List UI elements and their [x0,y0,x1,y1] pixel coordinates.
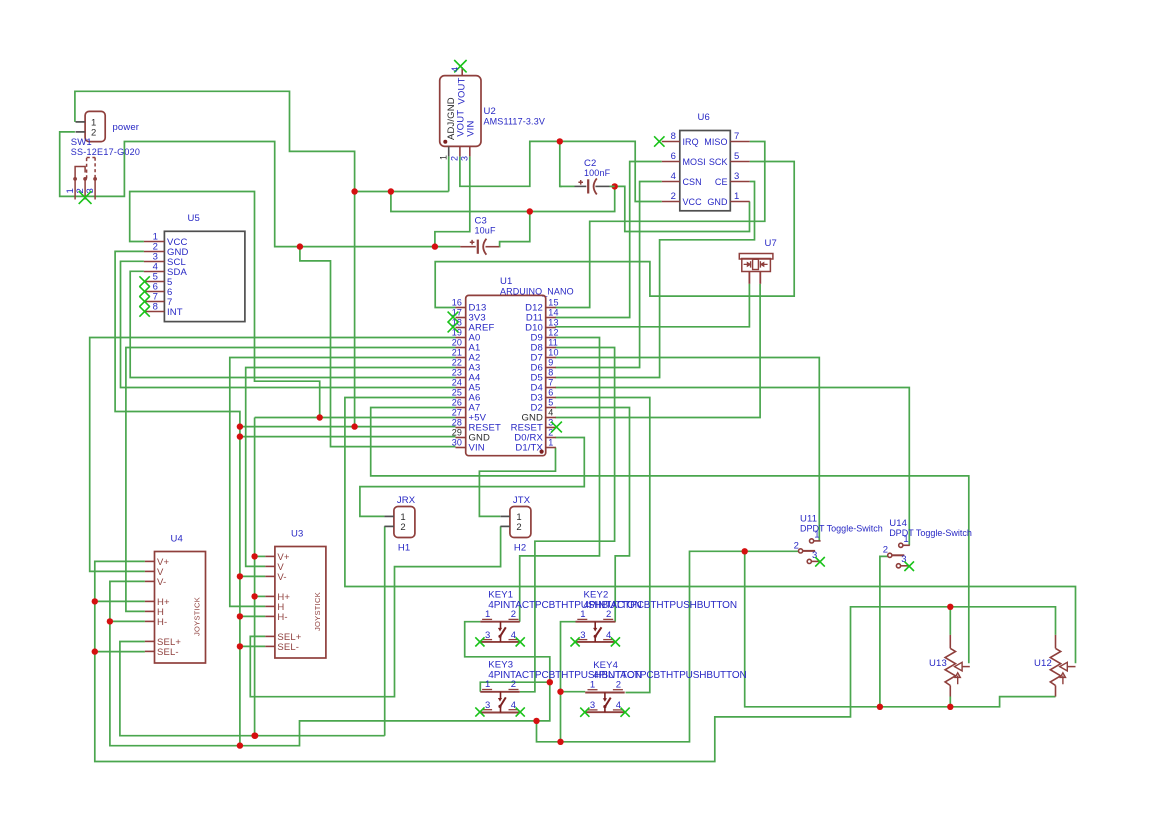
svg-text:MISO: MISO [704,137,727,147]
svg-text:AMS1117-3.3V: AMS1117-3.3V [484,117,546,127]
svg-text:3: 3 [734,171,739,182]
wire SCL to A5 [121,261,456,387]
U1 pin 9 D6 [546,367,556,369]
junction U13 top rail [947,604,953,610]
svg-text:26: 26 [452,397,462,407]
U5 pin 4 SDA [144,271,165,273]
wire GND to U3 SEL- [240,645,265,647]
svg-text:VIN: VIN [466,121,477,137]
U1 pin 6 D3 [546,397,556,399]
wire U7 pin1 to D10 [555,284,749,327]
U3 pin H [265,605,275,607]
wire GND row right to U7 pin2 [555,284,760,418]
U12 wiper arrow [1060,662,1068,671]
U5 pin 8 INT [144,311,165,313]
U1 pin 7 D4 [546,387,556,389]
wire U4 V- key common to KEY1 pin1 [110,581,550,745]
wire A7 to U13 wiper [371,408,969,664]
svg-text:7: 7 [548,377,553,387]
key KEY2 pin2 tick [603,618,613,620]
wire +5V drop to joysticks [254,418,256,736]
svg-text:VOUT: VOUT [457,77,468,104]
toggle U11 pin1 [810,539,814,543]
wire U5 GND bus [115,251,240,745]
key KEY2 bottom bar [576,641,616,643]
U1 pin 18 AREF [456,327,466,329]
KEY1 no-connect X pin3 [475,637,484,646]
wire JTX pin2 to U3 SEL+ [250,526,500,696]
C3 plate curved [483,239,486,255]
svg-text:DPDT Toggle-Switch: DPDT Toggle-Switch [800,524,883,534]
U5 pin 6 6 [144,291,165,293]
U3 pin H+ [265,595,275,597]
svg-text:H-: H- [157,617,167,628]
toggle U14 pin1 [899,543,903,547]
U5 pin 2 GND [144,251,165,253]
svg-text:KEY4: KEY4 [593,660,618,671]
no-connect X U6 IRQ [654,136,664,146]
U3 pin V+ [265,555,275,557]
junction KEY2/KEY4 [557,689,563,695]
U1 pin 15 D12 [546,307,556,309]
U1 pin 11 D8 [546,347,556,349]
key KEY1 actuator [500,622,502,629]
svg-text:SEL-: SEL- [277,642,299,653]
U6 pin 6 MOSI [662,161,680,163]
JRX pin1 stub [384,515,394,517]
key KEY1 pin3 tick [482,639,492,641]
wire D1 TX to JTX pin1 [479,448,555,517]
svg-text:29: 29 [452,427,462,437]
regulator U2 body [440,76,481,147]
wire A1 to U4 H [126,348,456,612]
U3 pin V [265,565,275,567]
U4 pin H- [145,620,155,622]
U1 pin 16 D13 [456,307,466,309]
potentiometer U12 zigzag [1050,648,1060,685]
U4 pin SEL- [145,650,155,652]
junction U4 V-/H- [107,618,113,624]
U1 pin 19 A0 [456,337,466,339]
svg-text:JRX: JRX [397,495,416,506]
svg-text:4: 4 [606,630,611,641]
U6 pin 3 CE [730,181,749,183]
potentiometer U12 bottom lead [1055,686,1057,697]
svg-text:H2: H2 [514,543,526,554]
U14 no-connect X pin3 [904,561,914,571]
wire SW1 pin2 VIN net [60,132,461,247]
U7 pin1 stub [748,272,750,284]
wire JRX pin2 down [384,526,386,735]
svg-text:5: 5 [734,151,739,162]
joystick module U4 body [155,552,206,664]
U1 pin 23 A4 [456,377,466,379]
junction C2 GND [612,183,618,189]
svg-text:1: 1 [734,191,739,202]
U4 pin SEL+ [145,640,155,642]
C3 left lead [460,246,476,248]
wire to C2 left lead [560,185,575,187]
svg-text:28: 28 [452,417,462,427]
svg-text:2: 2 [606,609,611,620]
wire pots bottom rail [745,551,1056,707]
svg-text:DPDT Toggle-Switch: DPDT Toggle-Switch [889,528,972,538]
wire KEY3 pin1 up link [480,682,550,692]
svg-text:27: 27 [452,407,462,417]
svg-text:U6: U6 [698,112,710,123]
KEY4 no-connect X pin4 [621,708,630,717]
IC U1 ARDUINO_NANO body [466,295,546,455]
svg-text:30: 30 [452,437,462,447]
no-connect X U1 AREF [448,322,459,333]
switch SW1 body [85,111,105,141]
key KEY4 actuator [604,693,606,699]
JTX pin1 stub [500,515,510,517]
junction U14 pin2 rail [877,704,883,710]
wire +5V row [255,417,456,419]
junction VIN C3 [432,243,438,249]
svg-text:11: 11 [548,337,558,347]
wire +5V to U3 V+ [255,555,266,557]
potentiometer U13 top lead [949,635,951,649]
C3 right lead [486,246,500,248]
toggle U14 pin2 lever [888,553,892,557]
wire SDA to A4 [130,271,455,377]
junction key common 2 [557,739,563,745]
U1 pin 17 3V3 [456,317,466,319]
C2 plate curved [594,178,597,194]
U1 pin 14 D11 [546,317,556,319]
U2 pin4 stub [461,67,463,75]
wire key common to U11 pin2 [537,551,799,742]
C2 right lead [595,185,609,187]
svg-text:KEY2: KEY2 [584,590,609,601]
capacitor C2 plus sign [578,180,583,185]
header JTX body [510,507,531,538]
KEY3 no-connect X pin3 [475,707,484,716]
wire D2 to KEY2 pin2 [555,408,629,622]
KEY4 no-connect X pin3 [580,708,589,717]
svg-text:CE: CE [715,177,728,187]
U1 pin 13 D10 [546,327,556,329]
svg-text:8: 8 [548,367,553,377]
U2 pin2 stub [459,146,461,156]
wire D4 to U14 pin1 [555,388,909,546]
svg-text:VIN: VIN [469,443,485,454]
svg-text:1: 1 [903,534,908,545]
switch SW1 slide symbol dashed [86,158,88,179]
wire U12 bottom stub [1055,696,1057,698]
svg-text:1: 1 [580,609,585,620]
key KEY4 pin4 tick [613,709,623,711]
svg-text:2: 2 [400,522,405,533]
U6 pin 8 IRQ [662,141,680,143]
C2 plate flat [587,179,589,193]
U1 pin 30 VIN [456,447,466,449]
svg-text:7: 7 [734,131,739,142]
U4 pin V- [145,580,155,582]
wire to KEY4 pin1 [561,691,586,693]
svg-text:1: 1 [439,155,449,160]
svg-text:U3: U3 [291,529,303,540]
svg-text:6: 6 [548,387,553,397]
U1 pin 29 GND [456,437,466,439]
SW1 symbol pin 3 [93,177,97,181]
U6 pin 5 SCK [730,161,749,163]
switch SW1 slide symbol [75,167,85,179]
svg-text:2: 2 [548,427,553,437]
svg-text:2: 2 [511,609,516,620]
svg-text:U7: U7 [765,238,777,249]
toggle U14 pin3 [896,564,900,568]
key KEY2 pin1 tick [577,618,587,620]
svg-text:15: 15 [548,297,558,307]
key KEY4 pin3 tick [588,709,598,711]
svg-text:2: 2 [450,156,460,161]
IC U6 body [680,131,731,211]
key KEY2 actuator [594,622,596,629]
U1 pin 25 A6 [456,397,466,399]
wire U14 pin2 down [880,556,889,706]
svg-text:10uF: 10uF [475,226,496,236]
potentiometer U13 bottom lead [949,686,951,697]
svg-text:U1: U1 [500,276,512,287]
key KEY3 pin2 tick [509,689,519,691]
wire +5V to U3 H+ [255,595,266,597]
U4 pin V [145,570,155,572]
no-connect X SW1 pin2 [79,191,92,204]
key KEY2 pin4 tick [603,639,613,641]
potentiometer U13 zigzag [945,648,955,685]
wire U4 H- [110,620,145,622]
svg-text:IRQ: IRQ [683,137,699,147]
svg-text:JTX: JTX [513,495,531,506]
junction U4 SEL- [92,648,98,654]
svg-text:U5: U5 [188,213,200,224]
wire GND to U3 V- [240,575,265,577]
U1 pin 2 D0/RX [546,437,556,439]
junction KEY1/KEY3 [547,679,553,685]
crystal module U7 body [739,254,773,260]
svg-text:U2: U2 [484,106,496,117]
wire SW1 pin1 to GND net [75,91,355,191]
junction +5V JRX2 [252,733,258,739]
key KEY3 actuator [500,692,502,699]
svg-text:JOYSTICK: JOYSTICK [193,597,202,636]
svg-text:2: 2 [511,679,516,690]
wire CE to D5 [555,182,754,378]
junction C3 GND [527,208,533,214]
wire KEY2 pin1 down [561,622,576,742]
key KEY4 bottom bar [585,711,625,713]
junction +5V SEL line [251,733,257,739]
svg-text:2: 2 [671,191,676,202]
key KEY4 pin2 tick [613,689,623,691]
svg-text:4: 4 [450,67,460,72]
svg-text:1: 1 [814,530,819,541]
key KEY1 bottom bar [480,641,520,643]
svg-text:CSN: CSN [683,177,702,187]
svg-text:INT: INT [167,307,183,318]
U2 pin1 marker dot [443,140,447,144]
U1 pin 20 A1 [456,347,466,349]
svg-text:4: 4 [511,630,516,641]
no-connect X U1 3V3 [448,312,459,323]
svg-text:10: 10 [548,347,558,357]
U1 pin 22 A3 [456,367,466,369]
svg-text:16: 16 [452,297,462,307]
U1 pin 12 D9 [546,337,556,339]
junction GND reset row right [351,423,357,429]
wire D7 to U11 pin1 [555,358,819,541]
svg-text:SEL-: SEL- [157,647,179,658]
svg-text:KEY1: KEY1 [488,590,513,601]
svg-text:2: 2 [616,679,621,690]
U5 pin 7 7 [144,301,165,303]
IC U5 body [164,231,245,321]
C3 plate flat [477,240,479,254]
SW1 symbol pin 1 [73,177,77,181]
wire U4 V+ rail to pots top [95,561,1056,761]
svg-text:H-: H- [277,612,287,623]
toggle U11 pin3 [807,559,811,563]
U5 pin 3 SCL [144,261,165,263]
wire GND to U3 H- [240,615,265,617]
svg-text:6: 6 [671,151,676,162]
JRX pin2 stub [384,525,394,527]
U3 pin SEL+ [265,635,275,637]
svg-text:13: 13 [548,317,558,327]
wire 3V3 to C2 positive [560,141,562,186]
svg-text:8: 8 [153,301,158,312]
junction +5V U3 V+ [251,553,257,559]
key KEY1 pin2 tick [509,618,519,620]
wire GND segment B [355,191,449,193]
wire A0 to U4 V [90,338,456,572]
U6 pin 1 GND [730,201,749,203]
junction 3V3 [557,138,563,144]
junction GND B2 [388,188,394,194]
wire MISO to D12 [555,142,765,308]
svg-text:power: power [113,122,140,133]
wire U13 bottom [949,697,951,707]
junction GND reset row left [237,423,243,429]
svg-text:VCC: VCC [683,197,703,207]
svg-text:D1/TX: D1/TX [515,443,543,454]
wire A6 to U12 wiper [345,398,1076,664]
U1 pin 10 D7 [546,357,556,359]
wire U2 pin1 down [448,156,450,191]
wire D0 RX to JRX pin1 [360,438,584,517]
svg-text:3: 3 [590,700,595,711]
U4 pin V+ [145,560,155,562]
U2 pin1 stub [448,146,450,156]
U1 pin 5 D2 [546,407,556,409]
svg-text:4: 4 [511,700,516,711]
svg-text:1: 1 [485,679,490,690]
svg-text:3: 3 [485,630,490,641]
C2 left lead [575,185,587,187]
U1 pin1 marker dot [540,450,544,454]
key KEY4 pin1 tick [588,689,598,691]
svg-text:2: 2 [516,522,521,533]
key KEY3 bottom bar [480,712,520,714]
svg-text:GND: GND [707,197,728,207]
svg-text:100nF: 100nF [584,168,611,178]
U13 adjust arrow [955,673,960,684]
svg-text:3: 3 [485,700,490,711]
wire C3 negative to GND [499,212,530,247]
svg-text:25: 25 [452,387,462,397]
JTX pin2 stub [500,525,510,527]
SW1 pin 1 stub [76,121,86,123]
wire GND to U6 pin1 [615,186,750,231]
svg-text:MOSI: MOSI [683,157,706,167]
KEY3 no-connect X pin4 [516,707,525,716]
U3 pin SEL- [265,645,275,647]
U7 electrode right [759,261,761,267]
svg-text:U13: U13 [929,658,947,669]
capacitor C3 plus sign [470,240,475,245]
U6 pin 4 CSN [662,181,680,183]
svg-text:V-: V- [277,572,286,583]
U1 pin 3 RESET [546,427,556,429]
svg-text:1: 1 [485,609,490,620]
U1 pin 21 A2 [456,357,466,359]
toggle U11 pin2 lever [799,549,803,553]
junction U13 bottom rail [947,704,953,710]
U11 no-connect X pin3 [815,557,825,567]
svg-text:20: 20 [452,337,462,347]
svg-text:1: 1 [590,679,595,690]
key KEY3 pin1 tick [482,689,492,691]
KEY2 no-connect X pin4 [611,637,620,646]
U4 pin H+ [145,600,155,602]
no-connect X U2 pin4 [454,60,466,72]
SW1 pin 2 stub [76,131,86,133]
svg-text:1: 1 [548,437,553,447]
svg-text:KEY3: KEY3 [488,660,513,671]
no-connect X U1 RESET right [551,422,562,433]
wire A2 to U3 H [230,358,456,607]
svg-text:JOYSTICK: JOYSTICK [313,592,322,631]
wire C2 right lead to junction [610,185,615,187]
U1 pin 24 A5 [456,387,466,389]
U6 pin 2 VCC [662,201,680,203]
wire U2 VOUT 3V3 to U6 VCC [460,141,662,201]
U7 electrode left [750,261,752,267]
svg-text:9: 9 [548,357,553,367]
junction +5V row [317,414,323,420]
U1 pin 4 GND [546,417,556,419]
wire D3 to KEY4 pin2 [555,398,650,693]
key KEY4 top bar [585,692,625,694]
wire U2 VIN pin3 down [435,156,470,246]
U1 pin 8 D5 [546,377,556,379]
U7 crystal inner [753,259,759,269]
wire GND bus reset row [240,426,456,428]
U1 pin 27 +5V [456,417,466,419]
wire D8 to KEY3 pin2 [520,348,615,692]
wire GND row left [240,436,456,438]
svg-text:4: 4 [616,700,621,711]
U5 pin 1 VCC [144,241,165,243]
U1 pin 26 A7 [456,407,466,409]
U4 pin H [145,610,155,612]
svg-text:SW1: SW1 [71,137,92,148]
key KEY1 pin4 tick [509,639,519,641]
U1 pin 28 RESET [456,427,466,429]
